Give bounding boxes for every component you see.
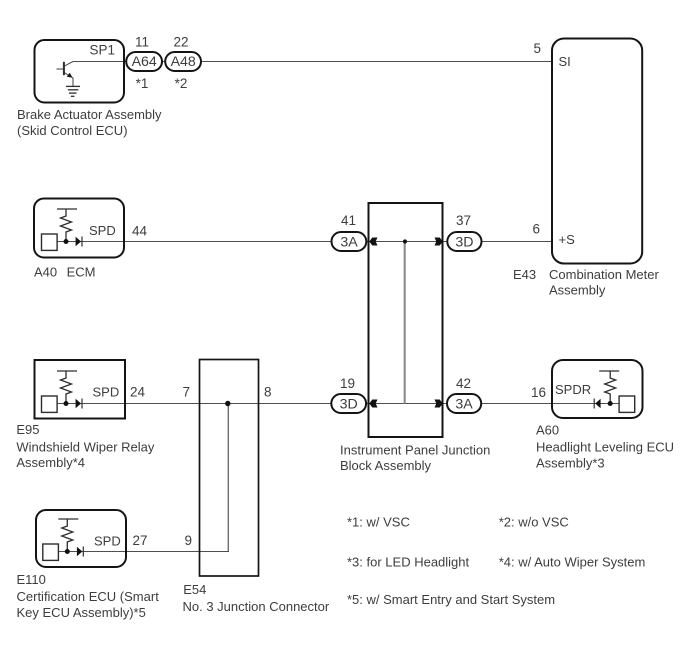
svg-text:3D: 3D [455,234,473,250]
svg-text:44: 44 [132,224,148,239]
svg-text:27: 27 [133,533,148,548]
svg-text:E54: E54 [183,582,206,597]
svg-text:6: 6 [532,222,540,237]
svg-text:E95: E95 [16,422,39,437]
svg-text:A64: A64 [132,54,157,70]
svg-text:No. 3 Junction Connector: No. 3 Junction Connector [183,599,330,614]
svg-text:3D: 3D [340,396,358,412]
svg-text:Key ECU Assembly)*5: Key ECU Assembly)*5 [17,605,146,620]
svg-text:SPD: SPD [94,534,121,549]
svg-text:37: 37 [456,213,471,228]
svg-text:8: 8 [264,385,272,400]
svg-text:Windshield Wiper Relay: Windshield Wiper Relay [16,439,154,454]
svg-text:3A: 3A [455,396,473,412]
svg-text:*4: w/ Auto Wiper System: *4: w/ Auto Wiper System [499,555,646,570]
svg-text:22: 22 [173,35,188,50]
svg-text:*1: *1 [136,76,149,91]
svg-text:Assembly*4: Assembly*4 [16,455,85,470]
svg-text:Combination Meter: Combination Meter [549,267,659,282]
svg-text:16: 16 [531,385,546,400]
svg-text:42: 42 [456,376,471,391]
svg-text:SP1: SP1 [90,43,116,58]
svg-text:SI: SI [559,54,571,69]
svg-text:SPD: SPD [89,223,116,238]
svg-text:E110: E110 [17,572,46,587]
svg-text:(Skid Control ECU): (Skid Control ECU) [17,123,128,138]
svg-text:Assembly*3: Assembly*3 [536,456,605,471]
svg-text:A48: A48 [171,54,196,70]
svg-text:Assembly: Assembly [549,283,606,298]
svg-text:*3: for LED Headlight: *3: for LED Headlight [347,555,470,570]
svg-text:ECM: ECM [67,265,96,280]
svg-text:5: 5 [533,41,541,56]
svg-text:*5: w/ Smart Entry and Start S: *5: w/ Smart Entry and Start System [347,592,555,607]
svg-text:19: 19 [340,376,355,391]
svg-text:*2: w/o VSC: *2: w/o VSC [499,514,569,529]
svg-text:9: 9 [185,533,193,548]
svg-text:3A: 3A [340,234,358,250]
svg-text:E43: E43 [513,267,536,282]
svg-text:7: 7 [182,385,190,400]
svg-text:SPDR: SPDR [555,382,591,397]
svg-text:*1: w/ VSC: *1: w/ VSC [347,514,410,529]
svg-text:SPD: SPD [93,385,120,400]
svg-text:Instrument Panel Junction: Instrument Panel Junction [340,443,490,458]
svg-text:A60: A60 [536,423,559,438]
svg-text:41: 41 [341,213,356,228]
svg-text:Brake Actuator Assembly: Brake Actuator Assembly [17,107,162,122]
svg-text:*2: *2 [175,76,188,91]
svg-text:Block Assembly: Block Assembly [340,458,432,473]
svg-text:+S: +S [559,232,576,247]
svg-text:Headlight Leveling ECU: Headlight Leveling ECU [536,440,674,455]
svg-text:A40: A40 [34,265,57,280]
svg-text:11: 11 [135,35,149,50]
svg-text:24: 24 [130,385,146,400]
svg-text:Certification ECU (Smart: Certification ECU (Smart [17,589,160,604]
